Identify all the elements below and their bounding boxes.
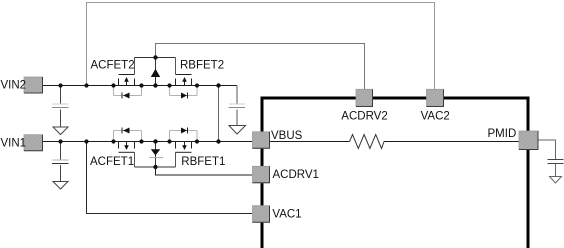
resistor R1 between VBUS and PMID (350, 135, 385, 149)
pad VBUS (253, 132, 270, 149)
svg-text:ACFET1: ACFET1 (90, 156, 134, 168)
pad ACDRV1 (253, 166, 270, 183)
diode D2 source-to-gate clamp (pair 2) (151, 58, 160, 86)
pad ACDRV2 (356, 89, 373, 106)
node dot gate node pair 2 (153, 55, 157, 59)
wire ACDRV2 net: gate node up and across, down to ACDRV2 pad (156, 44, 365, 90)
ground below C_in1 (53, 182, 68, 190)
svg-text:ACFET2: ACFET2 (91, 60, 135, 72)
pad VIN1 (24, 135, 43, 151)
transistor RBFET1 (170, 128, 198, 168)
svg-text:VIN1: VIN1 (1, 138, 27, 150)
node dot gate node pair 1 (153, 165, 157, 169)
node dots on VIN2 row (58, 83, 220, 87)
svg-text:RBFET2: RBFET2 (180, 60, 224, 72)
svg-text:VAC2: VAC2 (421, 111, 450, 123)
pad VAC1 (253, 206, 270, 223)
ground below C_in2 (53, 127, 68, 135)
wire resistor to PMID (384, 141, 519, 143)
svg-text:RBFET1: RBFET1 (181, 156, 225, 168)
svg-text:ACDRV1: ACDRV1 (273, 169, 319, 181)
capacitor C_in2 on VIN2 row (52, 86, 69, 128)
node dots on VIN1 row (58, 139, 220, 143)
svg-text:ACDRV2: ACDRV2 (341, 111, 387, 123)
wire RBFET2 output drop to VBUS row (218, 86, 220, 142)
wire VIN2 row (42, 85, 238, 87)
pad VAC2 (427, 89, 444, 106)
IC boundary top edge (261, 97, 530, 100)
wire PMID to output cap (538, 140, 556, 160)
pad PMID (519, 131, 538, 150)
ground below C2 (229, 126, 246, 135)
wire VAC2 net: VIN2 row up, top rail, down to VAC2 pad (87, 3, 435, 90)
ground below C_pmid (550, 177, 562, 184)
transistor ACFET2 (114, 58, 142, 99)
pad VIN2 (24, 77, 43, 93)
transistor ACFET1 (114, 128, 142, 168)
svg-text:VAC1: VAC1 (272, 209, 301, 221)
transistor RBFET2 (170, 58, 198, 99)
svg-text:PMID: PMID (488, 128, 517, 140)
wire VAC1 net: VIN1 row down, across to VAC1 pad (87, 142, 253, 214)
IC boundary right edge (527, 97, 530, 248)
wire common gate line FET2 pair (135, 57, 176, 59)
svg-text:VIN2: VIN2 (1, 79, 27, 91)
capacitor C_in1 on VIN1 row (52, 142, 69, 182)
capacitor C_pmid (548, 160, 564, 177)
wire ACDRV1 net: gate node down, across to ACDRV1 pad (156, 167, 253, 175)
wire VIN1/VBUS row left (42, 141, 350, 143)
capacitor C2 at right end of VIN2 row (229, 86, 246, 126)
svg-text:VBUS: VBUS (271, 130, 303, 142)
IC boundary left edge (261, 97, 264, 248)
diode D1 source-to-gate clamp (pair 1) (149, 142, 163, 168)
wire common gate line FET1 pair (135, 166, 176, 168)
